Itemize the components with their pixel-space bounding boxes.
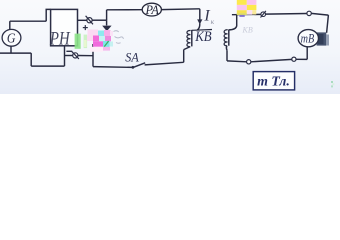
small terminal on secondary wire [261,11,266,18]
wire: top-left horizontal run [10,20,46,22]
blob artifact 1 (pastel checker over hidden component) [84,30,113,52]
svg-text:mB: mB [301,31,315,45]
wire: PA to Ik corner [161,8,199,11]
arrowhead: blob drop stub [102,26,111,32]
generator G circle [2,29,21,46]
left coil KB loops [187,30,191,46]
green streak in blob 1 [104,41,108,47]
switch SA: left contact dot [132,66,135,69]
green artifact strip right [84,35,88,49]
wire: right coil top hook to secondary wire [229,15,237,30]
wire: stub to minus terminal [65,55,73,57]
svg-text:KB: KB [242,26,253,35]
wire: right corner drop to mB [327,15,329,33]
left coil KB stem [191,30,193,47]
wire: bottom-left bus to image edge [0,52,31,54]
svg-text:m Тл.: m Тл. [257,75,290,90]
svg-text:SA: SA [125,49,138,64]
plus terminal (circle with slash) [86,16,93,24]
svg-text:PA: PA [145,3,160,17]
junction circle on secondary bus right [292,57,296,61]
wire: Ik arrow vertical [199,9,201,20]
wire: secondary bus right segment [296,58,307,60]
wire: secondary bus left segment [227,60,247,63]
wire: secondary bus middle segment [251,59,292,61]
speckle artifact bottom right [331,81,334,87]
wire: PH box bottom drop [64,46,66,66]
junction circle on secondary top wire [307,11,311,15]
wire: drop to SA bus [92,44,94,67]
wire: junction to right corner [311,13,328,15]
wire: bottom bus under PH box [31,65,64,67]
wire: mB bottom lead [306,47,308,60]
wire: bottom-left bus step [30,53,32,66]
junction circle on secondary bus left [247,60,251,64]
faint gray squiggle right of blob 1 [114,31,124,44]
wire: overline wire into left coil stem [192,29,212,32]
wire: generator G top lead [9,21,11,30]
wire: PH box right stub to plus terminal [78,19,87,21]
svg-text:KB: KB [194,29,211,45]
minus sign [66,50,72,52]
svg-text:к: к [211,17,215,26]
wire: right coil bottom jog [225,46,228,50]
wire: riser to PH box top [46,9,50,21]
green artifact strip left [75,34,81,49]
wire: secondary top run under blob [232,13,261,15]
svg-text:PH: PH [49,28,70,49]
wire: left coil bottom diagonal lead [184,47,191,50]
blob artifact 2 (yellow/pink checker) [237,0,257,15]
right coil loops [224,30,228,46]
wire: top run to ammeter PA [107,9,143,11]
arrowhead: current Ik [197,19,202,24]
wire: plus terminal to PA riser [92,19,106,21]
wire: G bottom lead [10,46,12,53]
minus terminal (circle with slash) [72,51,79,59]
right coil stem [228,30,230,46]
svg-text:G: G [7,32,16,47]
gray smudge artifact by mB [317,32,327,45]
wire: minus terminal to SA drop [78,55,93,57]
wire: hook from arrow to coil top wire [197,23,200,30]
purple dash under blob 2 [239,15,244,17]
wire: bus to SA left contact [93,66,133,69]
caption box mTl [253,72,294,90]
plus sign [83,25,88,30]
wire: drop stub into blob [106,20,108,25]
wire: secondary run to junction [266,13,308,16]
wire: right coil bottom drop [226,50,228,61]
wire: riser to left coil bottom [183,50,185,63]
millivoltmeter mB [298,30,318,47]
wire: riser up to PA level [106,10,108,20]
ammeter PA [142,3,161,16]
regulator box PH [51,9,78,45]
switch SA: blade [133,63,145,68]
wire: SA right side to left coil corner [145,62,184,65]
svg-text:I: I [203,7,210,24]
